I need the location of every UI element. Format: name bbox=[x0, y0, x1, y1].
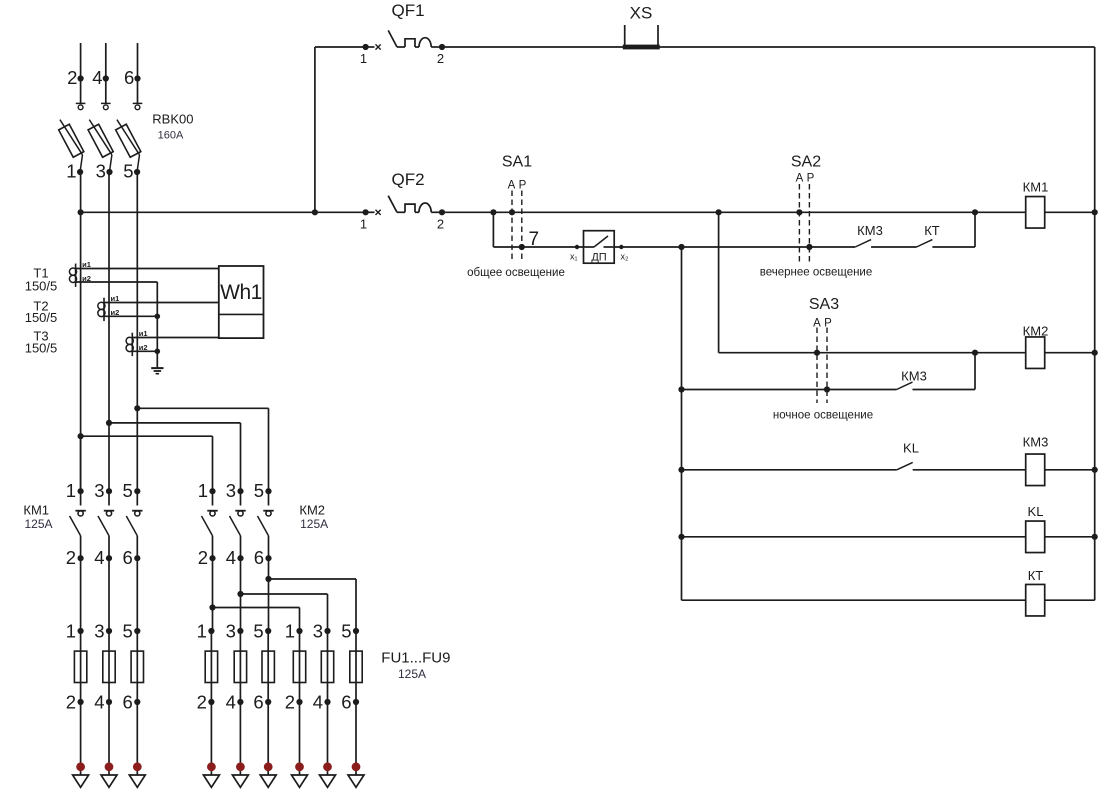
terminal 2 dot bbox=[78, 75, 84, 81]
svg-text:4: 4 bbox=[94, 547, 104, 568]
svg-text:4: 4 bbox=[313, 692, 323, 713]
junction riser on row3 bbox=[972, 350, 978, 356]
wire SA1 branch down bbox=[492, 212, 494, 247]
fuse FU4 bottom node 2 bbox=[208, 699, 214, 705]
wire through fuse FU6 bbox=[267, 631, 269, 702]
terminal 4 dot bbox=[103, 75, 109, 81]
svg-text:Wh1: Wh1 bbox=[220, 281, 262, 304]
svg-text:KL: KL bbox=[903, 440, 919, 455]
svg-text:125А: 125А bbox=[398, 667, 426, 681]
wire main line left segment bbox=[81, 211, 366, 213]
switch SA3 dashed line A bbox=[816, 328, 818, 404]
wire FU5 to outgoing arrow bbox=[239, 702, 241, 775]
wire row6 bus2 to KT coil bbox=[682, 599, 1026, 601]
junction bus1 main line bbox=[716, 209, 722, 215]
svg-text:КМ3: КМ3 bbox=[857, 223, 883, 238]
contactor pole node 2 bbox=[78, 555, 84, 561]
switch SA2 dashed line P bbox=[808, 184, 810, 263]
svg-text:A: A bbox=[813, 317, 821, 329]
wire through fuse FU5 bbox=[239, 631, 241, 702]
photocell lead-out bbox=[604, 246, 615, 248]
svg-text:A: A bbox=[508, 180, 516, 192]
svg-text:2: 2 bbox=[197, 692, 207, 713]
wire through fuse FU4 bbox=[210, 631, 212, 702]
disconnect contact phase 6 bar bbox=[133, 102, 143, 104]
svg-text:SA2: SA2 bbox=[791, 153, 821, 170]
wire bus1 vertical bbox=[718, 212, 720, 352]
svg-text:125А: 125А bbox=[300, 517, 328, 531]
contactor pole node 5 bbox=[265, 488, 271, 494]
svg-text:1: 1 bbox=[360, 217, 367, 232]
svg-text:3: 3 bbox=[94, 621, 104, 642]
wire bus1 corner to row3 bbox=[719, 352, 1026, 354]
svg-text:1: 1 bbox=[360, 51, 367, 66]
wire row4 coil to right bus bbox=[1045, 469, 1095, 471]
fuse RBK00 phase 3 (tilted) bbox=[88, 124, 113, 157]
coil KM2 bbox=[1026, 337, 1045, 369]
fuse FU6 bottom node 6 bbox=[265, 699, 271, 705]
fuse FU5 body bbox=[234, 651, 246, 682]
wire FU6 to outgoing arrow bbox=[267, 702, 269, 775]
contact KM3 (night circuit) bbox=[897, 382, 913, 389]
svg-text:SA3: SA3 bbox=[809, 296, 839, 313]
wire through fuse FU2 bbox=[108, 631, 110, 702]
wire row2 between KM3 and KT bbox=[871, 246, 916, 248]
outgoing terminal dot FU8 bbox=[323, 762, 332, 771]
junction row3b bus2 bbox=[678, 386, 684, 392]
svg-text:КМ2: КМ2 bbox=[1023, 324, 1049, 339]
junction riser on main line bbox=[972, 209, 978, 215]
svg-text:и1: и1 bbox=[82, 260, 91, 269]
wire node7 to photocell bbox=[522, 246, 584, 248]
contactor pole blade bbox=[258, 516, 269, 536]
fuse FU9 bottom node 6 bbox=[353, 699, 359, 705]
fuse FU7 bottom node 2 bbox=[296, 699, 302, 705]
svg-text:2: 2 bbox=[285, 692, 295, 713]
wire KM1 pole2 down bbox=[108, 558, 110, 631]
svg-text:2: 2 bbox=[67, 67, 77, 88]
current transformer T1 bbox=[69, 264, 76, 287]
fuse RBK00 phase 5 (tilted) bbox=[116, 124, 141, 157]
junction row2 bus2 bbox=[678, 244, 684, 250]
wire through fuse FU8 bbox=[327, 631, 329, 702]
wire T1 secondary bottom bbox=[76, 281, 158, 283]
wire row5 coil to right bus bbox=[1045, 536, 1095, 538]
svg-text:P: P bbox=[519, 180, 527, 192]
switch SA2 dashed line A bbox=[798, 184, 800, 263]
meter Wh1 box bbox=[219, 266, 264, 338]
wire row3 coil to right bus bbox=[1045, 352, 1095, 354]
wire KM1 pole3 down bbox=[136, 558, 138, 631]
svg-text:6: 6 bbox=[254, 547, 264, 568]
junction SA2 P on row2 bbox=[806, 244, 812, 250]
junction T3 common bbox=[155, 349, 161, 355]
switch SA1 dashed line P bbox=[521, 191, 523, 263]
outgoing arrow FU5 bbox=[232, 775, 248, 787]
svg-text:и1: и1 bbox=[111, 294, 120, 303]
contactor pole node 4 bbox=[106, 555, 112, 561]
node 1 of QF2 bbox=[363, 209, 369, 215]
svg-text:RBK00: RBK00 bbox=[152, 112, 193, 127]
wire row3b KM3 to riser bbox=[913, 389, 976, 391]
fuse FU1 top node 1 bbox=[78, 628, 84, 634]
svg-text:3: 3 bbox=[226, 480, 236, 501]
wire FU8 to outgoing arrow bbox=[327, 702, 329, 775]
svg-text:КТ: КТ bbox=[924, 223, 940, 238]
wire row2 bus2 to KM3 contact bbox=[682, 246, 856, 248]
contactor pole fixed contact bbox=[80, 491, 82, 505]
junction SA3 A on row3 bbox=[814, 350, 820, 356]
svg-text:150/5: 150/5 bbox=[25, 341, 58, 356]
svg-text:2: 2 bbox=[198, 547, 208, 568]
outgoing arrow FU6 bbox=[260, 775, 276, 787]
svg-text:ДП: ДП bbox=[591, 252, 606, 264]
svg-text:5: 5 bbox=[253, 621, 263, 642]
coil KM3 bbox=[1026, 454, 1045, 486]
switch SA1 dashed line A bbox=[511, 191, 513, 263]
wire phase3 to KM1 pole3 bbox=[136, 408, 138, 491]
contactor pole node 1 bbox=[78, 488, 84, 494]
fuse FU1 body bbox=[74, 651, 86, 682]
wire T2 secondary top to Wh1 bbox=[104, 302, 219, 304]
current transformer T3 bbox=[126, 333, 133, 356]
meter Wh1 divider bbox=[219, 313, 264, 315]
svg-text:3: 3 bbox=[313, 621, 323, 642]
wire T2 secondary bottom bbox=[104, 315, 157, 317]
outgoing arrow FU7 bbox=[292, 775, 308, 787]
wire phase2 jog to KM2 pole2 bbox=[109, 422, 241, 424]
svg-text:3: 3 bbox=[94, 480, 104, 501]
svg-text:5: 5 bbox=[123, 621, 133, 642]
fuse FU3 body bbox=[131, 651, 143, 682]
wire KM2 pole1 down bbox=[212, 558, 214, 631]
node 2 of QF1 bbox=[439, 44, 445, 50]
fuse FU9 top node 5 bbox=[353, 628, 359, 634]
fuse FU5 top node 3 bbox=[237, 628, 243, 634]
wire main line KM1 coil to right bus bbox=[1045, 211, 1095, 213]
svg-text:125А: 125А bbox=[25, 517, 53, 531]
node 1 dot bbox=[77, 169, 83, 175]
svg-text:вечернее освещение: вечернее освещение bbox=[760, 267, 873, 279]
svg-text:5: 5 bbox=[123, 161, 133, 182]
contactor pole blade bbox=[98, 516, 109, 536]
junction phase2 jog bbox=[106, 420, 112, 426]
svg-text:FU1...FU9: FU1...FU9 bbox=[381, 650, 450, 667]
outgoing terminal dot FU6 bbox=[264, 762, 273, 771]
wire FU7 to outgoing arrow bbox=[299, 702, 301, 775]
fuse FU4 body bbox=[205, 651, 217, 682]
svg-text:P: P bbox=[824, 317, 832, 329]
svg-text:КМ3: КМ3 bbox=[1023, 434, 1049, 449]
contactor pole fixed contact bbox=[240, 491, 242, 505]
svg-text:4: 4 bbox=[226, 547, 236, 568]
wire KM2 pole3 jog to group3 bbox=[269, 578, 357, 580]
svg-text:2: 2 bbox=[437, 51, 444, 66]
wire photocell to bus2 bbox=[614, 246, 681, 248]
contact KT (evening circuit) bbox=[917, 240, 933, 247]
disconnect contact phase 2 bar bbox=[76, 102, 86, 104]
fuse FU7 top node 1 bbox=[296, 628, 302, 634]
svg-text:160А: 160А bbox=[158, 129, 184, 141]
junction row4 bus2 bbox=[678, 467, 684, 473]
fuse FU4 top node 1 bbox=[208, 628, 214, 634]
svg-text:150/5: 150/5 bbox=[25, 279, 58, 294]
svg-text:КМ2: КМ2 bbox=[299, 503, 325, 518]
wire row2 KT to riser bbox=[932, 246, 975, 248]
svg-text:150/5: 150/5 bbox=[25, 310, 58, 325]
wire FU2 to outgoing arrow bbox=[108, 702, 110, 775]
photocell blade bbox=[594, 236, 608, 247]
wire T3 secondary bottom bbox=[132, 350, 157, 352]
wire right bus bbox=[1094, 47, 1096, 600]
svg-text:6: 6 bbox=[124, 67, 134, 88]
wire FU3 to outgoing arrow bbox=[136, 702, 138, 775]
wire phase3 jog to KM2 pole3 bbox=[137, 407, 268, 409]
outgoing terminal dot FU9 bbox=[352, 762, 361, 771]
svg-text:КМ1: КМ1 bbox=[23, 503, 49, 518]
outgoing terminal dot FU7 bbox=[295, 762, 304, 771]
contactor pole blade bbox=[230, 516, 241, 536]
contactor pole node 3 bbox=[237, 488, 243, 494]
wire riser row2 to main bbox=[974, 212, 976, 247]
svg-text:6: 6 bbox=[123, 692, 133, 713]
junction main line at phase 1 bbox=[78, 209, 84, 215]
terminal 6 dot bbox=[134, 75, 140, 81]
svg-text:SA1: SA1 bbox=[502, 154, 532, 171]
svg-text:КМ1: КМ1 bbox=[1023, 179, 1049, 194]
junction row4 right bus bbox=[1092, 467, 1098, 473]
junction SA1 branch bbox=[490, 209, 496, 215]
svg-text:x₂: x₂ bbox=[621, 252, 630, 262]
contactor pole fixed contact bbox=[136, 491, 138, 505]
wire top line QF1 to right bus bbox=[442, 46, 1095, 48]
coil KM1 bbox=[1026, 197, 1045, 229]
terminal x2 dot bbox=[619, 245, 623, 249]
switch SA3 dashed line P bbox=[826, 328, 828, 404]
wire through fuse FU3 bbox=[136, 631, 138, 702]
svg-text:QF2: QF2 bbox=[391, 170, 424, 189]
outgoing terminal dot FU4 bbox=[207, 762, 216, 771]
junction QF1 branch bbox=[312, 209, 318, 215]
wire FU9 to outgoing arrow bbox=[355, 702, 357, 775]
junction SA2 A on main line bbox=[796, 209, 802, 215]
disconnect contact phase 6 circle bbox=[135, 105, 140, 110]
node 7 junction bbox=[519, 244, 525, 250]
wire row5 bus2 to KL coil bbox=[682, 536, 1026, 538]
socket XS bar bbox=[623, 45, 660, 50]
junction SA3 P on row3b bbox=[824, 386, 830, 392]
contactor pole node 5 bbox=[134, 488, 140, 494]
wire row3b bus2 to KM3 contact bbox=[682, 389, 897, 391]
wire KM2 pole2 jog to group3 bbox=[241, 593, 328, 595]
wire phase1 jog to KM2 pole1 bbox=[81, 435, 213, 437]
wire phase 1 vertical bbox=[80, 172, 82, 491]
fuse FU9 body bbox=[350, 651, 362, 682]
junction row5 bus2 bbox=[678, 534, 684, 540]
outgoing arrow FU3 bbox=[129, 775, 145, 787]
fuse FU3 bottom node 6 bbox=[134, 699, 140, 705]
outgoing arrow FU1 bbox=[73, 775, 89, 787]
photocell lead-in bbox=[584, 246, 595, 248]
fuse FU6 body bbox=[262, 651, 274, 682]
wire through fuse FU9 bbox=[355, 631, 357, 702]
junction KM2 pole1 jog bbox=[209, 604, 215, 610]
junction KM2 pole3 jog bbox=[265, 576, 271, 582]
svg-text:КТ: КТ bbox=[1028, 568, 1044, 583]
outgoing terminal dot FU2 bbox=[105, 762, 114, 771]
node 5 dot bbox=[134, 169, 140, 175]
wire FU1 to outgoing arrow bbox=[80, 702, 82, 775]
svg-text:XS: XS bbox=[630, 4, 653, 23]
svg-text:2: 2 bbox=[66, 547, 76, 568]
wire KM1 pole1 down bbox=[80, 558, 82, 631]
socket XS right pin bbox=[657, 25, 659, 47]
svg-text:1: 1 bbox=[197, 621, 207, 642]
fuse FU8 top node 3 bbox=[324, 628, 330, 634]
svg-text:4: 4 bbox=[226, 692, 236, 713]
svg-text:4: 4 bbox=[94, 692, 104, 713]
wire row4 KL to coil bbox=[913, 469, 1026, 471]
contactor pole node 3 bbox=[106, 488, 112, 494]
coil KT bbox=[1026, 584, 1045, 616]
svg-text:1: 1 bbox=[66, 161, 76, 182]
contactor pole blade bbox=[70, 516, 81, 536]
contactor pole node 6 bbox=[134, 555, 140, 561]
svg-text:QF1: QF1 bbox=[391, 1, 424, 20]
svg-text:1: 1 bbox=[285, 621, 295, 642]
wire QF1 branch riser bbox=[314, 47, 316, 212]
contactor pole node 1 bbox=[209, 488, 215, 494]
disconnect contact phase 4 bar bbox=[101, 102, 111, 104]
fuse FU5 bottom node 4 bbox=[237, 699, 243, 705]
node 2 of QF2 bbox=[439, 209, 445, 215]
wire row6 coil to right bus bbox=[1045, 599, 1095, 601]
wire phase 3 vertical bbox=[136, 172, 138, 408]
wire top line left of QF1 bbox=[315, 46, 366, 48]
wire KM2 pole2 down bbox=[240, 558, 242, 631]
circuit breaker QF1 bbox=[366, 30, 442, 49]
disconnect contact phase 4 circle bbox=[103, 105, 108, 110]
wire SA1 branch bottom bbox=[493, 246, 521, 248]
junction row3 right bus bbox=[1092, 350, 1098, 356]
outgoing terminal dot FU3 bbox=[133, 762, 142, 771]
terminal x1 dot bbox=[575, 245, 579, 249]
svg-text:2: 2 bbox=[66, 692, 76, 713]
wire T1 secondary top to Wh1 bbox=[76, 268, 219, 270]
svg-text:5: 5 bbox=[254, 480, 264, 501]
svg-text:6: 6 bbox=[253, 692, 263, 713]
current transformer T2 bbox=[98, 298, 105, 321]
svg-text:2: 2 bbox=[437, 217, 444, 232]
fuse FU3 top node 5 bbox=[134, 628, 140, 634]
svg-text:ночное освещение: ночное освещение bbox=[773, 410, 873, 422]
junction main line right bus bbox=[1092, 209, 1098, 215]
svg-text:4: 4 bbox=[92, 67, 102, 88]
disconnect contact phase 2 circle bbox=[78, 105, 83, 110]
contact KL bbox=[897, 462, 913, 469]
svg-text:6: 6 bbox=[341, 692, 351, 713]
junction row5 right bus bbox=[1092, 534, 1098, 540]
contactor pole node 2 bbox=[209, 555, 215, 561]
node 1 of QF1 bbox=[363, 44, 369, 50]
svg-text:и1: и1 bbox=[139, 329, 148, 338]
svg-text:1: 1 bbox=[198, 480, 208, 501]
fuse FU6 top node 5 bbox=[265, 628, 271, 634]
fuse FU1 bottom node 2 bbox=[78, 699, 84, 705]
svg-text:P: P bbox=[807, 173, 815, 185]
fuse FU2 top node 3 bbox=[106, 628, 112, 634]
wire row4 bus2 to KL contact bbox=[682, 469, 897, 471]
outgoing arrow FU8 bbox=[320, 775, 336, 787]
contactor pole fixed contact bbox=[212, 491, 214, 505]
wire KM2 pole1 jog to group3 bbox=[213, 607, 300, 609]
wire through fuse FU7 bbox=[299, 631, 301, 702]
wire T3 secondary top to Wh1 bbox=[132, 337, 219, 339]
outgoing terminal dot FU1 bbox=[76, 762, 85, 771]
wire phase1 to KM1 pole1 bbox=[80, 436, 82, 491]
contactor pole blade bbox=[202, 516, 213, 536]
outgoing arrow FU9 bbox=[348, 775, 364, 787]
svg-text:3: 3 bbox=[226, 621, 236, 642]
wire incoming phase 4 top bbox=[105, 43, 107, 103]
wire main line QF2 to KM1 coil bbox=[442, 211, 1026, 213]
svg-text:x₁: x₁ bbox=[570, 252, 578, 262]
node 3 dot bbox=[106, 169, 112, 175]
junction KM2 pole2 jog bbox=[237, 591, 243, 597]
contactor pole blade bbox=[126, 516, 137, 536]
outgoing arrow FU4 bbox=[203, 775, 219, 787]
svg-text:3: 3 bbox=[96, 161, 106, 182]
wire incoming phase 2 top bbox=[80, 43, 82, 103]
photocell box ДП bbox=[584, 231, 615, 264]
wire phase2 to KM1 pole2 bbox=[108, 423, 110, 491]
svg-text:КМ3: КМ3 bbox=[901, 368, 927, 383]
svg-text:KL: KL bbox=[1028, 504, 1044, 519]
wire incoming phase 6 top bbox=[137, 43, 139, 103]
circuit breaker QF2 bbox=[366, 196, 442, 215]
svg-text:1: 1 bbox=[66, 621, 76, 642]
outgoing arrow FU2 bbox=[101, 775, 117, 787]
contactor pole fixed contact bbox=[268, 491, 270, 505]
svg-text:общее освещение: общее освещение bbox=[467, 267, 565, 279]
fuse FU7 body bbox=[293, 651, 305, 682]
contact KM3 (evening circuit) bbox=[855, 240, 871, 247]
junction phase1 jog bbox=[78, 433, 84, 439]
contactor pole node 4 bbox=[237, 555, 243, 561]
svg-text:6: 6 bbox=[123, 547, 133, 568]
socket XS left pin bbox=[624, 25, 626, 47]
outgoing terminal dot FU5 bbox=[236, 762, 245, 771]
contactor pole fixed contact bbox=[108, 491, 110, 505]
fuse FU8 body bbox=[321, 651, 333, 682]
fuse RBK00 phase 1 (tilted) bbox=[59, 124, 84, 157]
junction phase3 jog bbox=[134, 405, 140, 411]
wire phase 2 vertical bbox=[108, 172, 110, 423]
fuse FU2 bottom node 4 bbox=[106, 699, 112, 705]
ground symbol bbox=[151, 368, 163, 374]
wire CT common to ground bbox=[156, 282, 158, 368]
svg-text:5: 5 bbox=[341, 621, 351, 642]
junction SA1 A on main line bbox=[509, 209, 515, 215]
wire KM2 pole3 down bbox=[268, 558, 270, 631]
svg-text:A: A bbox=[796, 173, 804, 185]
wire riser row3b to row3 bbox=[974, 353, 976, 390]
fuse FU2 body bbox=[103, 651, 115, 682]
svg-text:1: 1 bbox=[66, 480, 76, 501]
wire through fuse FU1 bbox=[80, 631, 82, 702]
contactor pole node 6 bbox=[265, 555, 271, 561]
svg-text:5: 5 bbox=[123, 480, 133, 501]
